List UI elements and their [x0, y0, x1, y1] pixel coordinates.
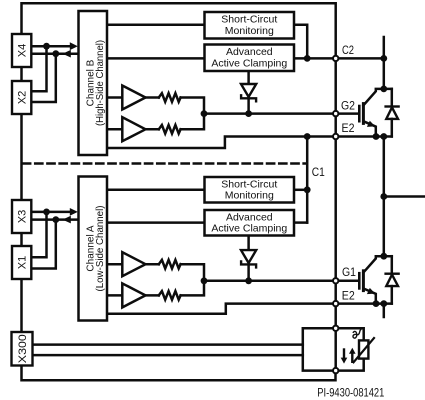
pin C2 terminal	[333, 56, 338, 61]
svg-text:X4: X4	[17, 44, 29, 57]
junction: SC-A output on C1 net	[304, 186, 311, 193]
junction: SC-B output on C2 net	[304, 55, 311, 62]
connector X2 box	[12, 81, 31, 114]
pin E2 terminal upper	[333, 134, 338, 139]
wire: Channel B to lower gate buffer input	[107, 128, 122, 131]
zener diode clamp A lead to G1 net	[247, 264, 250, 280]
svg-text:Advanced: Advanced	[226, 46, 273, 58]
zener diode clamp A lead from AAC box	[247, 236, 250, 251]
thermal coupling arrow up	[351, 353, 353, 362]
block: Advanced Active Clamping A	[205, 210, 295, 236]
resistor R gate B2	[159, 125, 181, 134]
junction: gate resistors join A	[201, 277, 208, 284]
block: Channel B (High-Side Channel)	[79, 11, 108, 155]
svg-text:Advanced: Advanced	[226, 211, 273, 223]
transistor Q upper IGBT gate bar	[358, 106, 361, 121]
transistor Q upper IGBT body bar	[362, 104, 365, 124]
junction: lower emitter on E2 net	[373, 300, 380, 307]
junction: phase output	[380, 193, 387, 200]
svg-text:C1: C1	[312, 167, 325, 179]
wire: Channel B to Short-Circut Monitoring B	[107, 24, 204, 27]
resistor R gate A1	[159, 260, 181, 269]
wire: G1 gate net to IGBT gate	[204, 280, 358, 283]
wire: gate resistor B1 to join	[181, 98, 204, 114]
wire: X300 lower lead to thermistor block	[33, 354, 303, 357]
wire: Advanced Active Clamping B output to C2 pin	[294, 57, 336, 60]
wire: thermistor block right loop bottom	[336, 359, 364, 371]
block: Advanced Active Clamping B	[205, 45, 295, 72]
diode D upper freewheel lead	[391, 89, 394, 106]
diode D lower freewheel anode lead	[391, 286, 394, 304]
wire: X4 lower input from Channel B	[31, 52, 78, 55]
transistor Q upper IGBT emitter lead	[364, 121, 376, 136]
junction: E2 net to C1 bus	[304, 133, 311, 140]
pin G1 terminal	[333, 278, 338, 283]
pin E2 terminal lower	[333, 301, 338, 306]
junction: gate resistors join B	[201, 110, 208, 117]
wire: lower buffer output to gate resistor A2	[146, 294, 159, 297]
junction: X4/X2 upper	[43, 43, 50, 50]
arrow: X3 output into Channel A	[70, 208, 78, 216]
diode D upper freewheel triangle	[386, 107, 398, 119]
transistor Q lower IGBT collector lead	[364, 256, 392, 272]
transistor Q lower IGBT emitter arrow	[367, 288, 375, 294]
wire: gate resistor B2 to join	[181, 114, 204, 130]
wire: bottom return from X300 to thermistor terminal	[22, 366, 336, 381]
wire: Channel A to lower gate buffer input	[107, 294, 122, 297]
wire: X4 upper output to Channel B	[31, 45, 71, 48]
svg-text:X1: X1	[17, 256, 29, 269]
diode D upper freewheel cathode bar	[386, 105, 399, 107]
op-amp buffer A1	[122, 252, 145, 276]
pin thermistor bottom terminal	[333, 368, 338, 373]
svg-text:C2: C2	[342, 45, 354, 57]
op-amp buffer B1	[122, 86, 145, 110]
junction: lower collector with diode	[380, 253, 387, 260]
wire: Channel A to upper gate buffer input	[107, 263, 122, 266]
wire: channel separator dashed line	[23, 162, 306, 165]
arrow: Channel A output toward X3	[63, 216, 71, 224]
svg-text:Short-Circut: Short-Circut	[221, 178, 277, 190]
junction: zener A on G1 net	[245, 277, 252, 284]
wire: X1 upper branch	[31, 212, 47, 257]
wire: X300 upper lead to thermistor block	[33, 343, 303, 346]
svg-text:PI-9430-081421: PI-9430-081421	[317, 386, 384, 400]
wire: Short-Circut Monitoring A output to C1 net	[294, 189, 307, 192]
zener diode clamp A bar	[241, 261, 256, 267]
transistor Q lower IGBT body bar	[362, 271, 365, 291]
wire: left connector chain X4-X2	[20, 67, 23, 81]
wire: X2 lower branch	[31, 54, 56, 102]
wire: left connector chain X3-X1	[20, 233, 23, 246]
svg-text:X300: X300	[17, 334, 29, 363]
svg-text:X2: X2	[17, 91, 29, 104]
wire: Channel B to upper gate buffer input	[107, 96, 122, 99]
svg-text:G2: G2	[341, 100, 355, 112]
block: Channel A (Low-Side Channel)	[79, 177, 108, 321]
wire: gate resistor A1 to join	[181, 264, 204, 281]
wire: Channel B emitter sense to E2 net	[107, 137, 392, 149]
wire: gate resistor A2 to join	[181, 281, 204, 296]
transistor Q upper IGBT collector lead	[364, 89, 392, 105]
thermistor RT diagonal	[354, 338, 375, 362]
resistor R gate B1	[159, 93, 181, 102]
junction: upper diode anode on E2 net	[380, 133, 387, 140]
transistor Q lower IGBT emitter lead	[364, 289, 376, 304]
wire: Channel A to Short-Circut Monitoring A	[107, 189, 204, 192]
op-amp buffer B2	[122, 117, 145, 141]
wire: lower emitter terminal stub	[383, 304, 386, 317]
wire: C1 feedback bus from E2 net	[306, 137, 309, 223]
resistor R gate A2	[159, 291, 181, 300]
wire: Channel B to Advanced Active Clamping B	[107, 57, 204, 60]
wire: module outline top and pin rail (net from C2 top wire)	[22, 3, 336, 370]
svg-text:G1: G1	[342, 267, 356, 279]
svg-text:(High-Side Channel): (High-Side Channel)	[95, 40, 106, 126]
wire: phase output stub	[384, 195, 425, 198]
svg-text:Active Clamping: Active Clamping	[211, 57, 287, 69]
junction: X4/X2 lower	[52, 50, 59, 57]
junction: X3/X1 lower	[52, 216, 59, 223]
thermal coupling arrow down	[343, 350, 345, 359]
wire: thermistor block left loop	[303, 328, 336, 370]
connector X300 box	[12, 332, 33, 366]
wire: upper buffer output to gate resistor A1	[146, 263, 159, 266]
zener diode clamp B lead to G2 net	[247, 98, 250, 113]
wire: lower buffer output to gate resistor B2	[146, 128, 159, 131]
wire: Channel A to Advanced Active Clamping A	[107, 221, 204, 224]
connector X3 box	[12, 200, 31, 233]
zener diode clamp B lead from AAC box	[247, 71, 250, 84]
wire: X3 upper output to Channel A	[31, 211, 71, 214]
junction: upper emitter on E2 net	[373, 133, 380, 140]
diode D lower freewheel lead	[391, 256, 394, 272]
junction: C2 net to collector bus	[380, 55, 387, 62]
pin G2 terminal	[333, 111, 338, 116]
wire: X1 lower branch	[31, 220, 56, 269]
wire: left connector chain X1-X300	[20, 279, 23, 332]
block: Short-Circut Monitoring A	[205, 177, 295, 203]
zener diode clamp B bar	[241, 95, 256, 101]
diode D lower freewheel triangle	[386, 275, 398, 287]
transistor Q lower IGBT gate bar	[358, 273, 361, 288]
wire: thermistor block right loop top	[336, 328, 364, 340]
junction: upper collector with diode	[380, 86, 387, 93]
wire: G2 gate net to IGBT gate	[204, 112, 358, 115]
diode D lower freewheel cathode bar	[386, 273, 399, 275]
svg-text:E2: E2	[342, 123, 355, 135]
zener diode clamp A triangle	[241, 250, 256, 263]
wire: upper buffer output to gate resistor B1	[146, 96, 159, 99]
op-amp buffer A2	[122, 283, 145, 307]
zener diode clamp B triangle	[241, 84, 256, 97]
pin thermistor top terminal	[333, 326, 338, 331]
transistor Q upper IGBT emitter arrow	[367, 121, 375, 127]
connector X4 box	[12, 34, 31, 67]
wire: left connector chain X2-X3	[20, 114, 23, 200]
wire: X3 lower input from Channel A	[31, 218, 78, 221]
svg-text:(Low-Side Channel): (Low-Side Channel)	[95, 206, 106, 292]
arrow: Channel B output toward X4	[63, 50, 71, 58]
svg-text:X3: X3	[17, 210, 29, 223]
junction: zener B on G2 net	[245, 110, 252, 117]
wire: Advanced Active Clamping A output to C1 net	[294, 221, 307, 224]
block: Short-Circut Monitoring B	[205, 12, 295, 39]
svg-text:E2: E2	[342, 290, 355, 302]
arrow: X4 output into Channel B	[70, 42, 78, 50]
connector X1 box	[12, 246, 31, 279]
svg-text:Short-Circut: Short-Circut	[221, 14, 277, 26]
wire: phase node bus E2 to C1	[383, 137, 386, 257]
wire: X2 upper branch	[31, 46, 47, 91]
thermistor RT body	[359, 340, 368, 358]
svg-text:Active Clamping: Active Clamping	[211, 223, 287, 235]
wire: upper collector terminal stub	[383, 37, 386, 89]
wire: Channel A emitter sense to lower E2 net	[107, 304, 392, 314]
label: thermistor theta symbol	[353, 329, 362, 338]
svg-text:Monitoring: Monitoring	[225, 25, 274, 37]
wire: Short-Circut Monitoring B output to C2 net	[294, 25, 307, 59]
svg-text:Monitoring: Monitoring	[225, 190, 274, 202]
diode D upper freewheel anode lead	[391, 119, 394, 137]
junction: lower diode anode on E2 net	[380, 300, 387, 307]
junction: X3/X1 upper	[43, 209, 50, 216]
wire: C2 pin to upper collector bus	[339, 57, 384, 60]
